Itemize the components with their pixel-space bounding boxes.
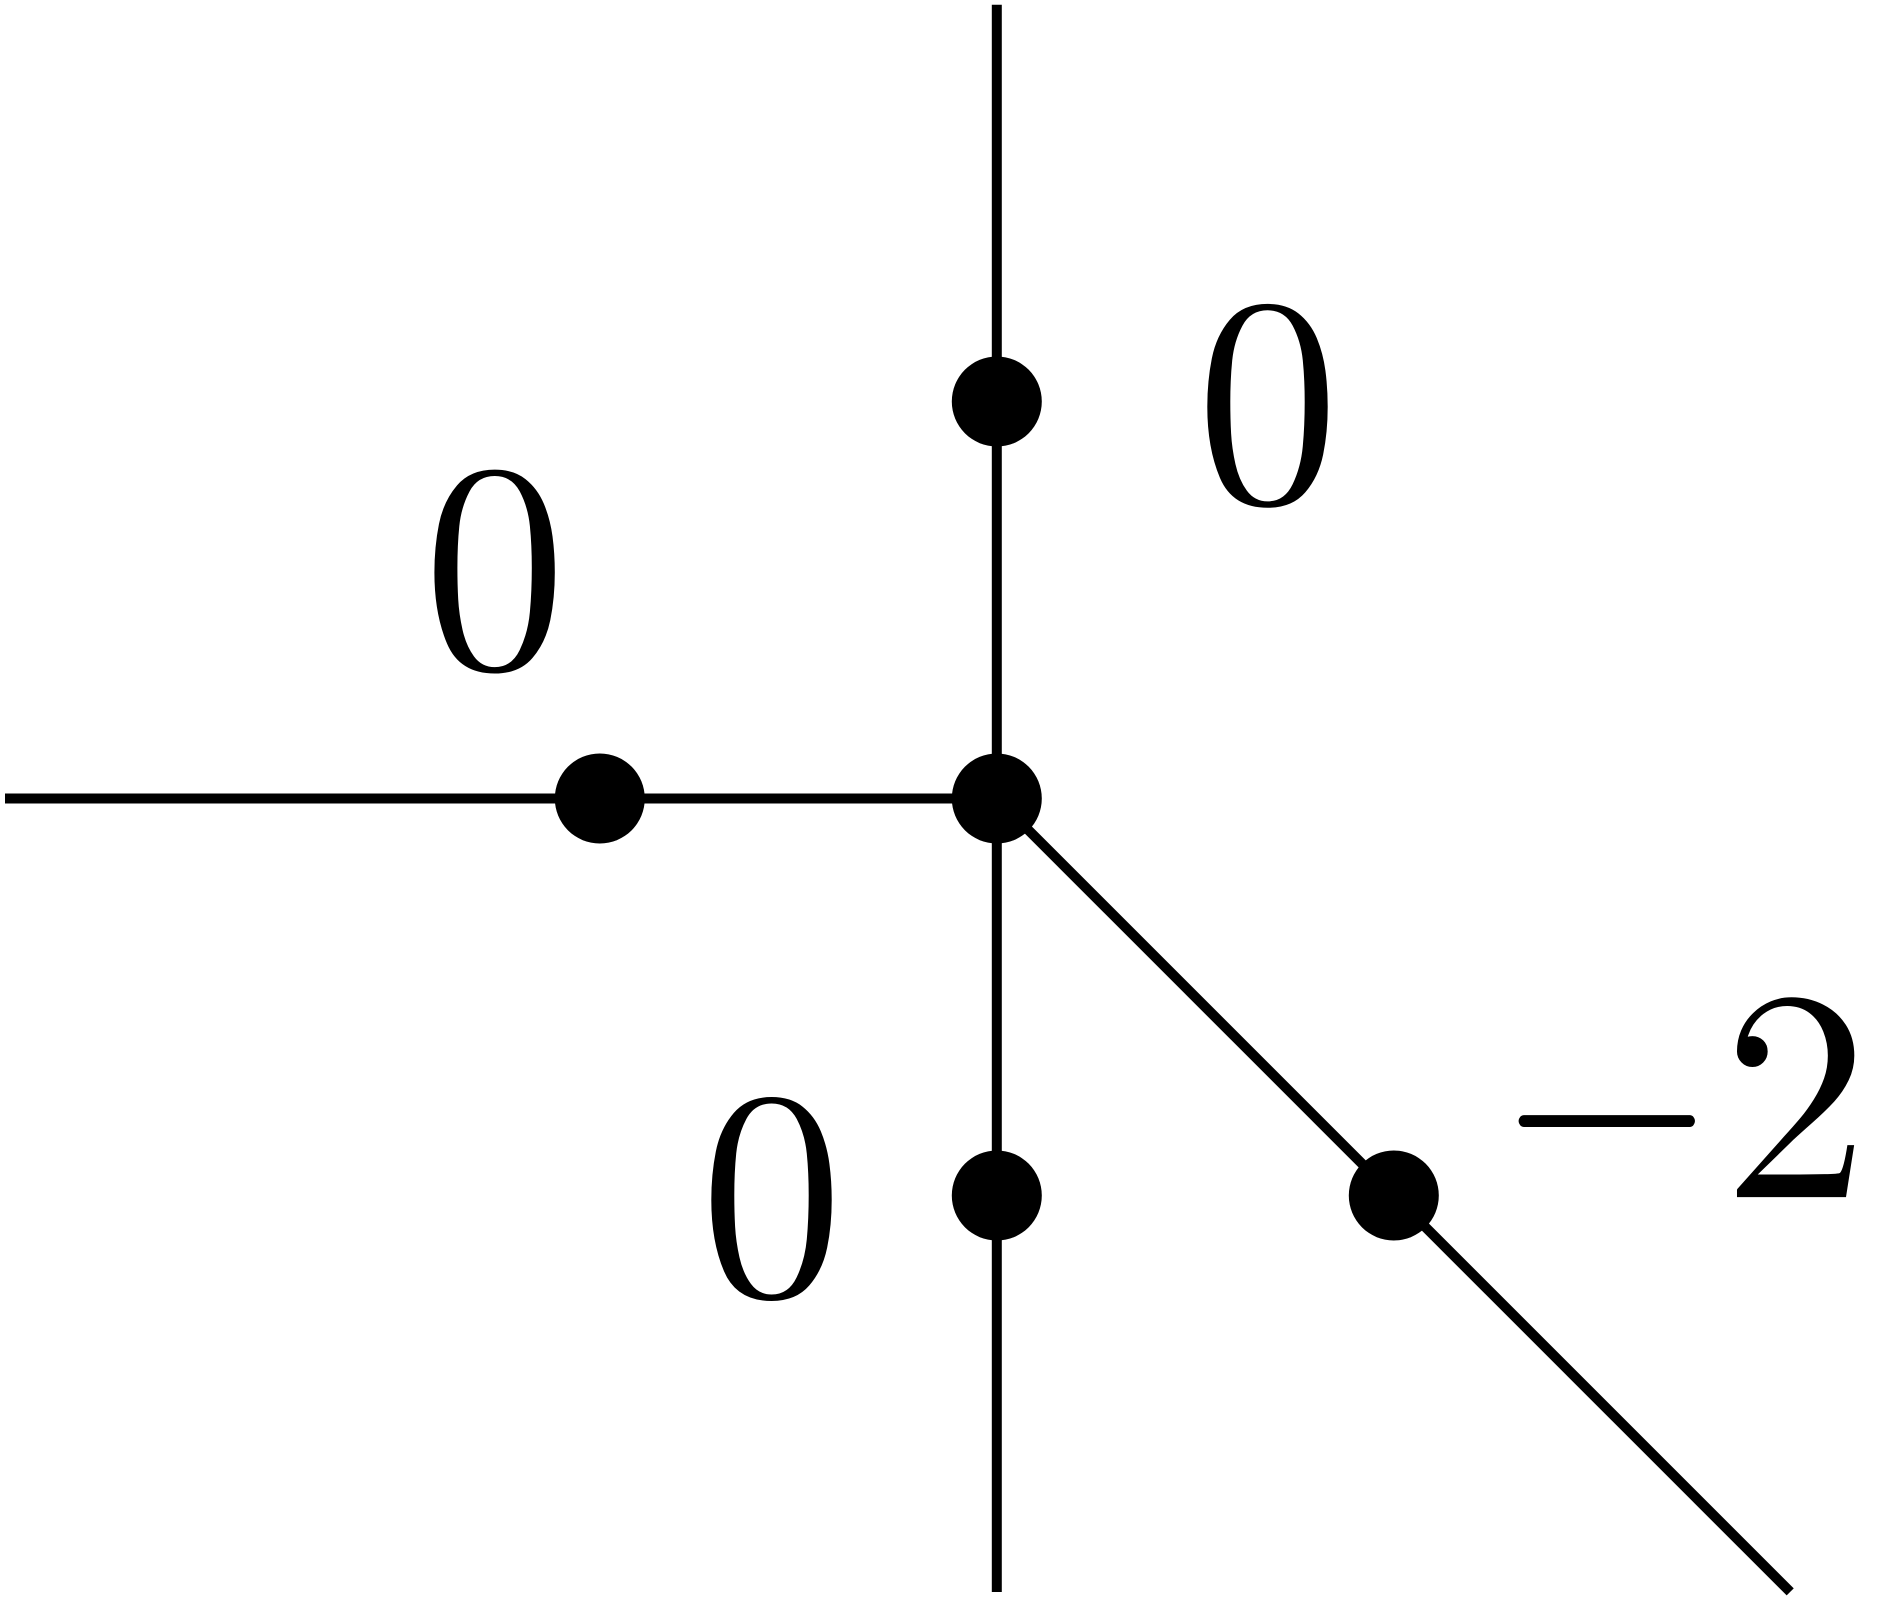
node: marked point on lower vertical ray — [952, 1151, 1042, 1241]
wire: left horizontal edge from left margin to central vertex — [5, 794, 997, 804]
value label minus sign of -2 for diagonal ray point — [1519, 1115, 1695, 1127]
node: central vertex — [952, 754, 1042, 844]
node: marked point on diagonal ray — [1349, 1151, 1439, 1241]
value label 0 for left horizontal ray point — [434, 470, 554, 674]
wire: vertical edge through central vertex — [992, 5, 1002, 1592]
value label 0 for upper vertical ray point — [1207, 304, 1327, 508]
wire: diagonal edge of slope 1 from central vertex to bottom right — [997, 799, 1790, 1592]
value label 0 for lower vertical ray point — [711, 1097, 831, 1301]
node: marked point on left horizontal ray — [555, 754, 645, 844]
node: marked point on upper vertical ray — [952, 357, 1042, 447]
value label digit 2 of -2 for diagonal ray point — [1736, 996, 1855, 1198]
